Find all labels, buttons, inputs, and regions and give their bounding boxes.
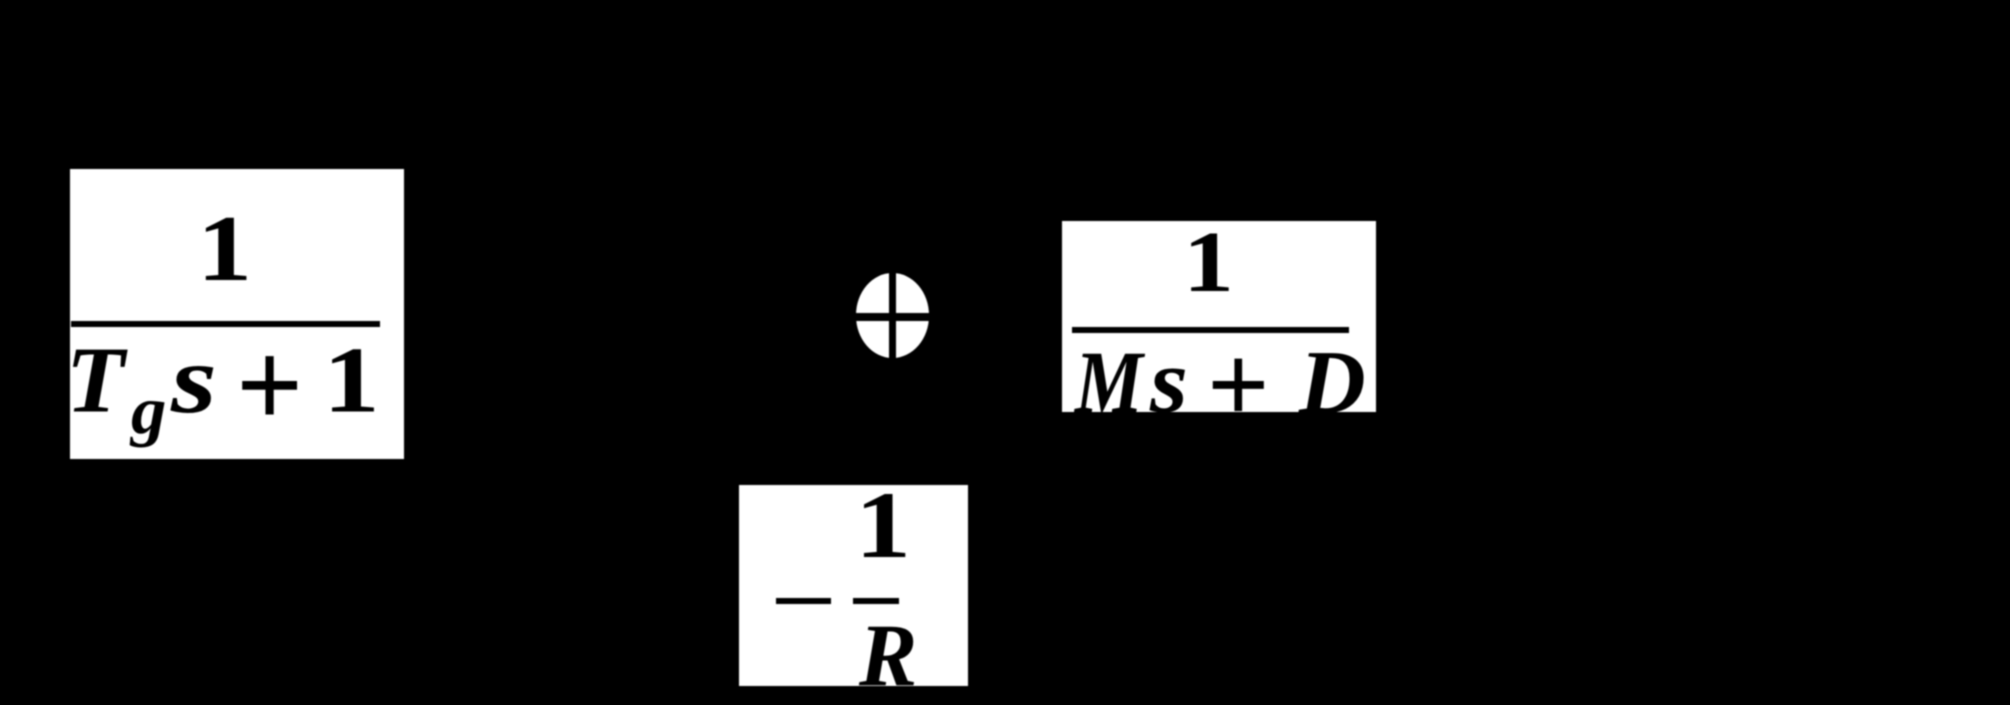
- denominator subscript g of block G1: [131, 377, 166, 445]
- denominator D of block G2: [1299, 337, 1366, 428]
- fraction bar of block G1: [71, 321, 380, 327]
- minus sign of block H: [776, 598, 831, 604]
- block G1 box 1/(Tg s+1): [70, 169, 404, 459]
- numerator 1 of block G2: [1183, 219, 1234, 306]
- block H box -1/R: [739, 485, 968, 687]
- summing junction cross horizontal stroke: [849, 313, 936, 321]
- block G2 box 1/(Ms+D): [1062, 221, 1376, 412]
- numerator 1 of block H: [855, 478, 911, 573]
- numerator 1 of block G1: [197, 202, 252, 296]
- denominator R of block H: [859, 611, 917, 700]
- fraction bar of block H: [853, 598, 899, 604]
- fraction bar of block G2: [1072, 327, 1349, 333]
- summing junction ellipse: [856, 273, 930, 358]
- denominator T of block G1: [66, 333, 125, 428]
- denominator plus of block G2: [1207, 329, 1270, 441]
- denominator s of block G1: [171, 331, 217, 429]
- denominator 1 of block G1: [323, 333, 380, 428]
- denominator M of block G2: [1075, 338, 1143, 427]
- summing junction cross vertical stroke: [889, 272, 897, 362]
- denominator s of block G2: [1150, 336, 1188, 427]
- denominator plus of block G1: [236, 323, 303, 448]
